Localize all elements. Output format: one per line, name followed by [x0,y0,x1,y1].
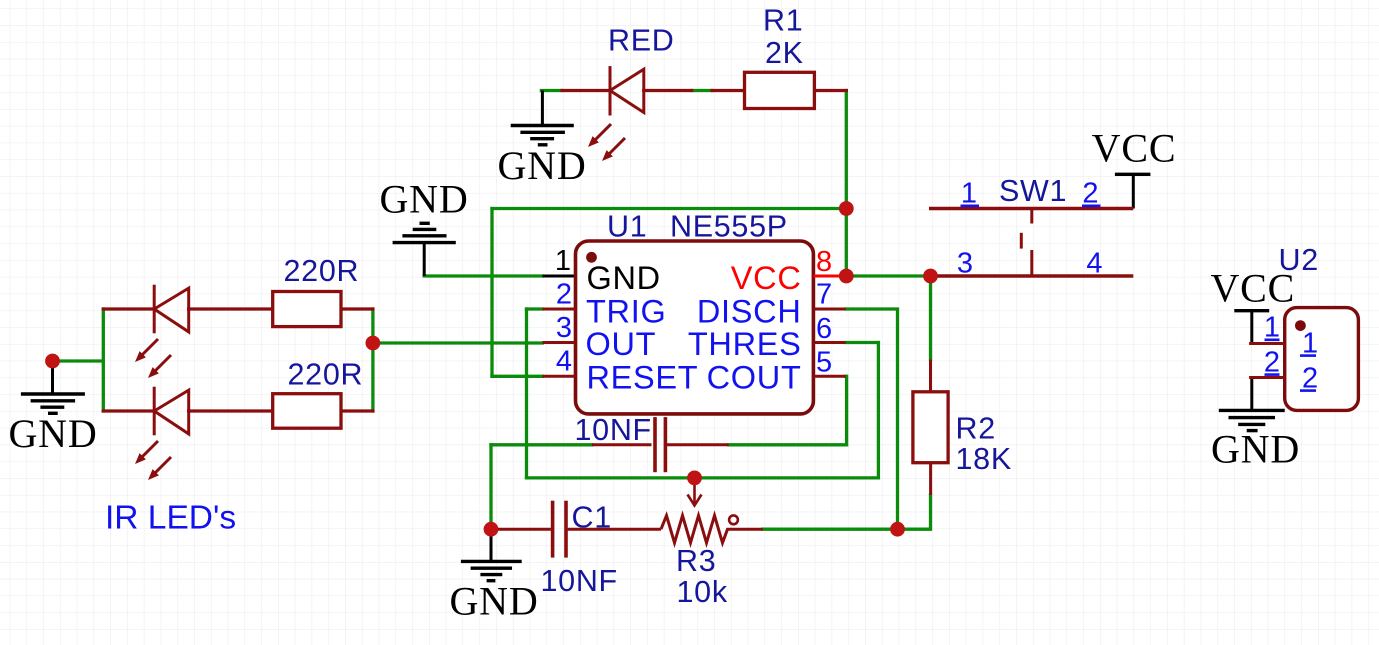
wire pin7 DISCH link down to bottom row [846,309,898,529]
wire left GND dot link [53,359,104,362]
wire pin5 COUT link down to control cap [729,376,847,445]
U2 pin stubs [1249,344,1285,378]
svg-text:4: 4 [556,346,572,378]
svg-text:VCC: VCC [731,260,802,296]
ground bottom center [461,529,522,581]
ground U2 [1219,378,1285,431]
svg-text:R3: R3 [676,544,716,578]
svg-text:NE555P: NE555P [670,210,788,244]
resistor 220R #2 [273,394,341,429]
wire IR LED left vertical [102,309,105,411]
wire IR LED2 row left [103,409,154,412]
VCC symbol top right [1115,174,1151,208]
svg-text:VCC: VCC [1210,266,1295,311]
svg-text:GND: GND [1211,427,1300,472]
svg-text:3: 3 [556,312,572,344]
IR LED D1 [154,285,189,334]
wire C1/cap column vertical [489,445,492,529]
svg-text:GND: GND [8,411,97,456]
svg-text:R1: R1 [763,4,803,38]
U1 pin1 marker dot [586,252,597,263]
wire R1 down to pin8 [845,91,848,277]
ground under red LED [511,91,574,145]
wire mid GND to pin1 [424,274,542,277]
svg-text:RED: RED [608,24,675,58]
svg-text:2: 2 [556,279,572,311]
junction dot LED/220R output [366,336,381,351]
U1 pin stubs right (7,6,5) [813,309,845,376]
svg-text:DISCH: DISCH [697,294,802,330]
switch SW1 actuator [1021,209,1032,277]
wire pin2 TRIG link [527,307,543,310]
svg-text:10NF: 10NF [575,413,652,447]
junction dot left GND [45,354,60,369]
IR LED D2 [154,387,189,436]
U1 pin stubs left (2,3,4) [542,309,575,376]
R3 wiper arrow [688,481,702,506]
resistor R2 [913,360,948,495]
wire red LED to R1 mid segment [692,89,712,92]
svg-text:COUT: COUT [707,360,802,396]
svg-text:U1: U1 [607,210,647,244]
wire red LED cathode pin [562,89,608,92]
svg-text:GND: GND [449,579,538,624]
wire 220R #2 to junction [341,409,373,412]
svg-text:220R: 220R [284,254,360,288]
svg-text:10NF: 10NF [541,564,618,598]
svg-text:220R: 220R [288,358,364,392]
svg-text:10k: 10k [677,575,728,609]
svg-text:GND: GND [497,143,586,188]
svg-text:6: 6 [816,313,832,345]
svg-text:4: 4 [1086,248,1102,280]
svg-text:OUT: OUT [586,326,657,362]
svg-text:C1: C1 [572,501,612,535]
connector U2 body [1285,308,1359,411]
VCC symbol U2 [1234,311,1269,344]
ground left [21,361,85,413]
wire RESET column vertical [490,209,493,377]
svg-text:R2: R2 [956,412,996,446]
U1 pin8 stub (bright red) [813,275,846,278]
wire control cap left [491,443,592,446]
switch SW1 top bar pins 1-2 [929,207,1133,210]
wire pin4 RESET link [492,375,542,378]
wire pin8 to SW pin3 [846,274,930,277]
IR LED D2 emission arrows [135,441,171,480]
resistor R1 [745,72,815,108]
red LED emission arrows [588,124,625,161]
svg-text:5: 5 [816,347,832,379]
IC U1 NE555P body [576,241,814,414]
R3 wiper terminal circle [729,515,738,524]
wire LED junction to pin3 OUT [373,341,543,344]
pin1 GND stub (black) [542,275,575,278]
wire IR LED1 row left [103,307,154,310]
svg-text:GND: GND [379,177,468,222]
junction dot pin8 [839,269,854,284]
svg-text:8: 8 [816,246,832,278]
svg-text:18K: 18K [956,442,1012,476]
svg-text:RESET: RESET [587,360,699,396]
wire R1 right pin [814,89,846,92]
junction dot VCC rail / R1 [839,201,854,216]
wire IR LED right junction vertical [371,309,374,411]
svg-text:TRIG: TRIG [586,294,666,330]
svg-text:SW1: SW1 [999,174,1067,208]
wire 220R #1 to junction [341,307,373,310]
junction dot C1/GND [484,522,499,537]
junction dot SW pin3 [923,269,938,284]
R3 right pin [731,528,763,531]
svg-text:3: 3 [957,248,973,280]
wire R2 top to SW pin3 [929,276,932,360]
junction dot R3 wiper row [687,471,702,486]
svg-text:GND: GND [587,260,661,296]
potentiometer R3 zigzag [661,516,731,543]
svg-text:IR LED's: IR LED's [105,500,236,537]
switch SW1 bottom bar pins 3-4 [931,274,1134,277]
wire TRIG column vertical [525,309,528,478]
svg-text:VCC: VCC [1092,126,1177,171]
capacitor C1 [491,501,661,558]
resistor 220R #1 [273,292,341,327]
wire THRES column vertical [877,343,880,478]
ground mid (flipped, bars on top) [393,223,456,276]
wire pin6 THRES link [846,341,879,344]
svg-text:1: 1 [555,245,571,277]
capacitor 10NF (control) [592,417,729,472]
U2 pin1 marker dot [1295,320,1306,331]
IR LED D1 emission arrows [135,339,171,378]
wire bottom row R3 to R2 [763,495,931,529]
wire IR LED2 anode to 220R [189,409,273,412]
wire IR LED1 anode to 220R [189,307,273,310]
wire red LED anode pin [644,89,692,92]
wire top VCC rail from RESET column to R1/pin8 column [492,207,846,210]
wire red LED left stub [541,89,562,92]
svg-text:7: 7 [816,279,832,311]
svg-text:2K: 2K [765,36,804,70]
wire TRIG-THRES bottom row [527,476,879,479]
red LED D3 [610,66,644,115]
junction dot bottom row / DISCH [890,522,905,537]
wire R1 left pin [712,89,745,92]
svg-text:THRES: THRES [688,326,802,362]
